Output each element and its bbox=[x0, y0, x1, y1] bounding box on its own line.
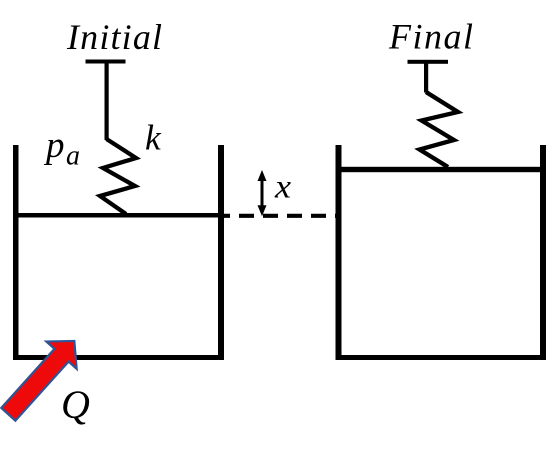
piston (right, final position) bbox=[336, 167, 547, 172]
piston (left, initial position) bbox=[13, 213, 224, 218]
fixed support (right) bbox=[408, 60, 449, 64]
fixed support (left) bbox=[86, 60, 126, 64]
svg-text:Final: Final bbox=[388, 17, 473, 57]
rod (right) bbox=[424, 64, 428, 93]
spring k (left) bbox=[100, 139, 136, 214]
spring k (right, compressed) bbox=[420, 92, 459, 167]
svg-text:Q: Q bbox=[61, 382, 90, 427]
right cylinder left wall bbox=[336, 145, 342, 360]
left cylinder right wall bbox=[218, 145, 224, 360]
left cylinder bottom bbox=[13, 355, 224, 360]
svg-text:k: k bbox=[145, 118, 162, 158]
svg-text:pa: pa bbox=[43, 125, 80, 172]
svg-text:x: x bbox=[274, 169, 291, 206]
heat arrow Q (red block arrow) bbox=[0, 327, 90, 428]
rod (left) bbox=[105, 63, 109, 140]
left cylinder left wall bbox=[13, 145, 19, 360]
svg-text:Initial: Initial bbox=[66, 17, 162, 57]
displacement arrow x (double-headed) bbox=[258, 170, 267, 216]
right cylinder bottom bbox=[336, 355, 547, 360]
dashed reference line bbox=[224, 214, 338, 218]
right cylinder right wall bbox=[540, 145, 546, 360]
